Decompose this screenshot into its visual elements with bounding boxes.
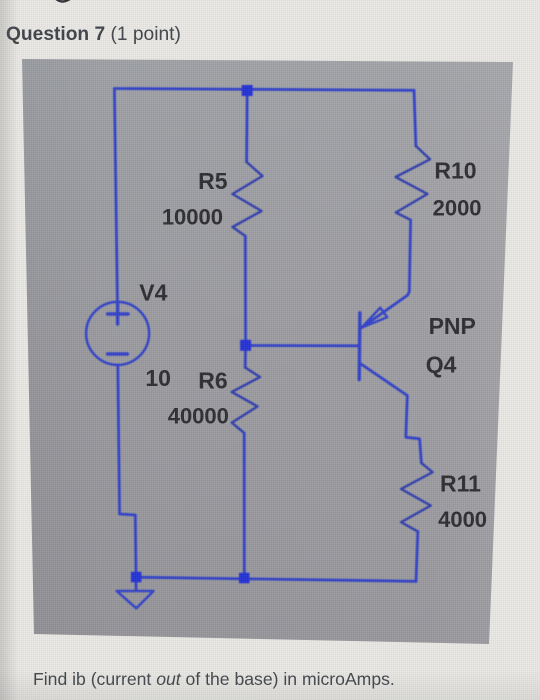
wire middle column top lead xyxy=(245,90,248,162)
question header xyxy=(6,24,181,46)
wire R10 bottom lead / emitter xyxy=(362,220,411,328)
question text xyxy=(33,669,395,690)
ground triangle xyxy=(117,591,154,608)
resistor R6 xyxy=(232,368,260,434)
V4 minus sign xyxy=(108,352,128,355)
svg-text:10000: 10000 xyxy=(162,205,223,230)
svg-text:R5: R5 xyxy=(198,168,228,194)
wire left vertical bottom with jog xyxy=(118,365,136,574)
V4 plus sign xyxy=(108,304,129,324)
wire collector xyxy=(360,363,422,463)
wire top horizontal xyxy=(114,89,414,91)
node bottom-mid junction xyxy=(239,573,250,584)
wire base xyxy=(248,344,360,347)
resistor R10 xyxy=(396,146,430,220)
stray dark mark top edge xyxy=(55,0,73,2)
svg-text:PNP: PNP xyxy=(429,313,476,339)
wire R6 top lead xyxy=(244,349,247,368)
node mid junction xyxy=(240,340,251,351)
svg-text:V4: V4 xyxy=(139,280,167,306)
resistor R5 xyxy=(233,162,263,236)
transistor Q4 emitter arrow (open) xyxy=(362,308,388,328)
transistor Q4 base bar xyxy=(358,313,362,380)
svg-text:2000: 2000 xyxy=(433,196,482,221)
node bottom-left junction xyxy=(131,572,142,583)
svg-text:Q4: Q4 xyxy=(426,352,457,378)
node top junction xyxy=(242,85,253,96)
svg-text:R11: R11 xyxy=(440,471,481,497)
wire bottom horizontal xyxy=(136,577,416,581)
wire left vertical top xyxy=(114,89,117,303)
wire R11 bottom lead xyxy=(416,532,418,582)
svg-text:R10: R10 xyxy=(434,158,476,184)
wire R5 to mid node xyxy=(244,236,247,342)
ground stem xyxy=(135,580,138,591)
wire R10 top lead xyxy=(414,90,416,146)
svg-text:R6: R6 xyxy=(198,368,227,394)
resistor R11 xyxy=(401,463,433,532)
svg-text:40000: 40000 xyxy=(168,404,229,429)
svg-text:10: 10 xyxy=(145,365,171,391)
voltage source V4 circle xyxy=(86,302,149,365)
svg-text:4000: 4000 xyxy=(438,507,487,532)
wire R6 bottom lead xyxy=(243,433,246,575)
